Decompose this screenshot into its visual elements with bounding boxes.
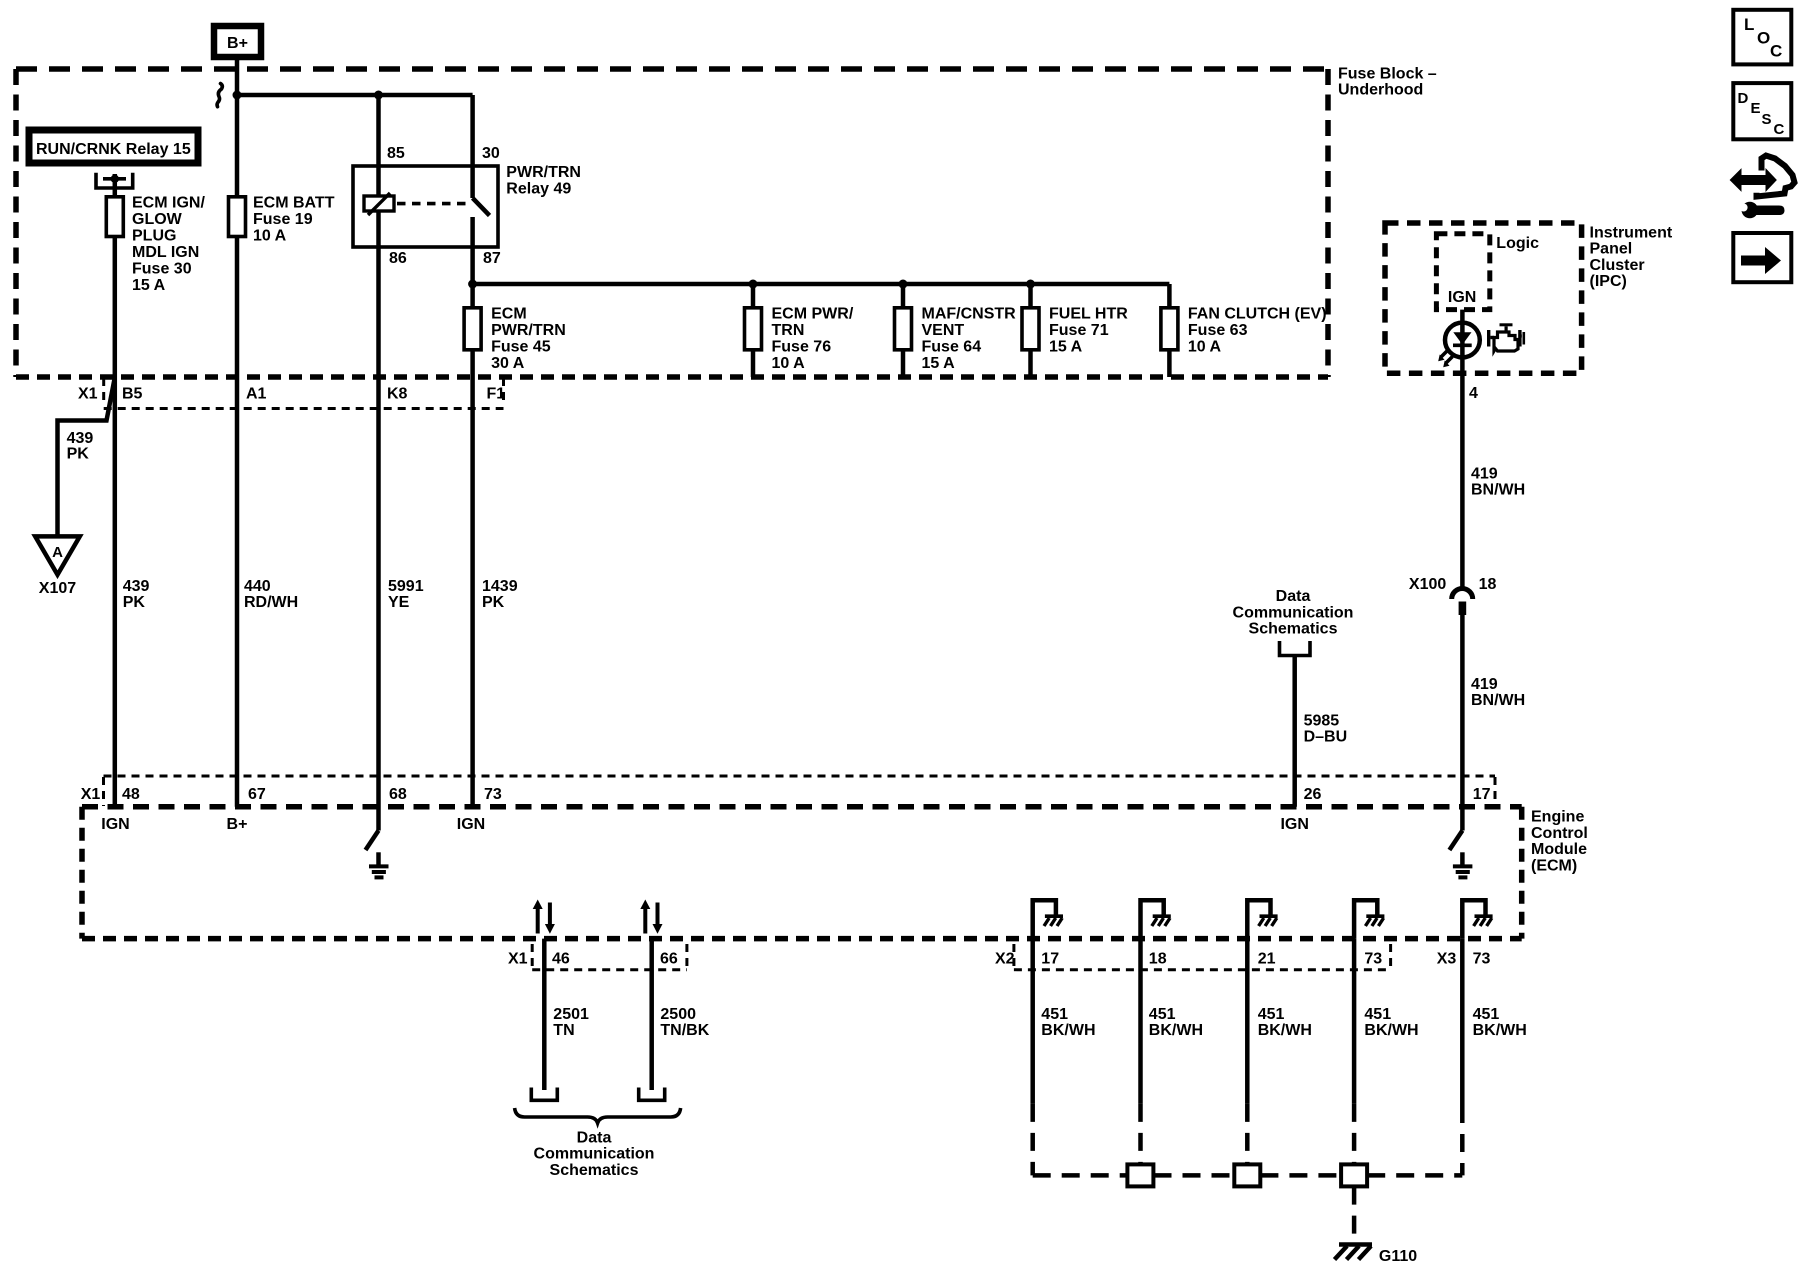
connector X100 pin 18 (1409, 576, 1497, 807)
icon forward arrow (1733, 233, 1791, 282)
off-page connector A / X107 (35, 536, 80, 597)
svg-text:ECM PWR/: ECM PWR/ (772, 306, 854, 323)
connector X1 fuse block output strip (78, 378, 505, 409)
svg-text:Schematics: Schematics (1249, 621, 1338, 638)
svg-text:419: 419 (1471, 676, 1498, 693)
wire 5991 YE K8 to ECM 68 (379, 377, 424, 831)
svg-text:451: 451 (1258, 1006, 1285, 1023)
power node B+ (214, 26, 261, 57)
svg-text:30: 30 (482, 145, 500, 162)
svg-text:X107: X107 (39, 580, 76, 597)
wire 2500 TN/BK (639, 939, 710, 1101)
svg-text:Data: Data (577, 1129, 612, 1146)
svg-text:D–BU: D–BU (1304, 729, 1348, 746)
svg-text:18: 18 (1149, 951, 1167, 968)
brace data communication schematics (515, 1108, 681, 1179)
svg-text:439: 439 (123, 578, 150, 595)
svg-text:ECM: ECM (491, 306, 527, 323)
svg-text:PWR/TRN: PWR/TRN (491, 322, 566, 339)
svg-text:2500: 2500 (660, 1006, 696, 1023)
svg-text:Communication: Communication (534, 1146, 655, 1163)
svg-text:YE: YE (388, 594, 410, 611)
fuse block underhood box (16, 66, 1437, 378)
relay terminal clip (96, 173, 133, 188)
svg-text:86: 86 (389, 250, 407, 267)
svg-text:Fuse 63: Fuse 63 (1188, 322, 1248, 339)
svg-text:10 A: 10 A (253, 228, 287, 245)
Engine Control Module (ECM) box (82, 807, 1588, 939)
svg-text:VENT: VENT (922, 322, 965, 339)
svg-text:73: 73 (1364, 951, 1382, 968)
wire 451 BK/WH pin 21 (1247, 939, 1312, 1164)
fuse F19 ECM BATT (229, 95, 335, 377)
svg-text:Control: Control (1531, 825, 1588, 842)
svg-text:ECM IGN/: ECM IGN/ (132, 195, 205, 212)
svg-text:G110: G110 (1379, 1248, 1417, 1265)
svg-text:15 A: 15 A (1049, 339, 1083, 356)
ground clip pin X2-73 (1354, 900, 1384, 938)
relay K49 PWR/TRN Relay 49 (353, 95, 581, 377)
svg-text:TN: TN (553, 1022, 574, 1039)
svg-text:S: S (1762, 111, 1772, 128)
svg-text:PK: PK (482, 594, 505, 611)
svg-text:73: 73 (1473, 951, 1491, 968)
svg-text:Data: Data (1276, 588, 1311, 605)
svg-text:26: 26 (1304, 786, 1322, 803)
svg-text:L: L (1744, 15, 1754, 34)
data link arrows pin 46 (533, 900, 555, 934)
svg-text:Fuse 71: Fuse 71 (1049, 322, 1109, 339)
splice box S1 (1127, 1164, 1153, 1186)
ground clip pin X2-17 (1033, 900, 1063, 938)
svg-text:BK/WH: BK/WH (1473, 1022, 1527, 1039)
svg-text:BN/WH: BN/WH (1471, 692, 1525, 709)
svg-text:BK/WH: BK/WH (1149, 1022, 1203, 1039)
svg-text:15 A: 15 A (922, 355, 956, 372)
svg-text:Relay 49: Relay 49 (506, 181, 571, 198)
svg-text:C: C (1774, 121, 1785, 138)
svg-text:Panel: Panel (1590, 241, 1633, 258)
svg-text:RUN/CRNK Relay 15: RUN/CRNK Relay 15 (36, 141, 191, 158)
wire 419 BN/WH lower (1471, 676, 1525, 709)
svg-text:5991: 5991 (388, 578, 424, 595)
svg-text:440: 440 (244, 578, 271, 595)
fuse F30 ECM IGN/GLOW PLUG MDL IGN (106, 174, 205, 377)
wire 451 BK/WH pin 18 (1141, 939, 1204, 1164)
svg-text:Cluster: Cluster (1590, 257, 1645, 274)
svg-text:FAN CLUTCH (EV): FAN CLUTCH (EV) (1188, 306, 1327, 323)
svg-text:Schematics: Schematics (550, 1162, 639, 1179)
svg-text:451: 451 (1149, 1006, 1176, 1023)
svg-text:F1: F1 (487, 386, 506, 403)
svg-text:B5: B5 (122, 386, 143, 403)
svg-text:C: C (1770, 42, 1782, 61)
svg-text:FUEL HTR: FUEL HTR (1049, 306, 1128, 323)
wire bus from relay pin 87 (468, 280, 1169, 289)
engine icon (check engine) (1487, 323, 1525, 351)
svg-text:5985: 5985 (1304, 713, 1340, 730)
fuse F45 ECM PWR/TRN (464, 284, 566, 377)
IPC pin 4 (1469, 385, 1478, 402)
wire 2501 TN (531, 939, 589, 1101)
svg-text:10 A: 10 A (772, 355, 806, 372)
wire 451 BK/WH pin 73 X3 (1462, 939, 1527, 1176)
svg-text:BK/WH: BK/WH (1258, 1022, 1312, 1039)
svg-text:30 A: 30 A (491, 355, 525, 372)
svg-text:439: 439 (67, 430, 94, 447)
svg-text:D: D (1738, 90, 1749, 107)
wire 1439 PK F1 to ECM 73 (473, 377, 518, 807)
ECM pin 17 switched ground (1449, 807, 1472, 878)
svg-text:IGN: IGN (457, 816, 485, 833)
svg-text:MDL IGN: MDL IGN (132, 244, 199, 261)
svg-text:PLUG: PLUG (132, 228, 176, 245)
svg-text:PK: PK (67, 446, 90, 463)
fuse F76 ECM PWR/TRN (745, 284, 854, 377)
svg-text:87: 87 (483, 250, 501, 267)
svg-text:73: 73 (484, 786, 502, 803)
svg-text:BK/WH: BK/WH (1041, 1022, 1095, 1039)
svg-text:68: 68 (389, 786, 407, 803)
svg-text:Communication: Communication (1233, 604, 1354, 621)
svg-text:451: 451 (1041, 1006, 1068, 1023)
svg-text:Fuse Block –: Fuse Block – (1338, 66, 1437, 83)
svg-text:IGN: IGN (1280, 816, 1308, 833)
ground clip pin X3-73 (1462, 900, 1492, 938)
svg-text:17: 17 (1473, 786, 1491, 803)
svg-text:2501: 2501 (553, 1006, 589, 1023)
svg-text:67: 67 (248, 786, 266, 803)
data link arrows pin 66 (640, 900, 662, 934)
ground clip pin X2-18 (1141, 900, 1171, 938)
svg-text:PWR/TRN: PWR/TRN (506, 164, 581, 181)
svg-text:48: 48 (122, 786, 140, 803)
connector strip ECM X1 bottom (508, 944, 687, 970)
svg-text:GLOW: GLOW (132, 211, 183, 228)
svg-text:PK: PK (123, 594, 146, 611)
svg-text:IGN: IGN (1448, 289, 1476, 306)
svg-text:10 A: 10 A (1188, 339, 1222, 356)
Instrument Panel Cluster (IPC) box (1385, 223, 1673, 373)
svg-text:17: 17 (1041, 951, 1059, 968)
fuse F64 MAF/CNSTR VENT (895, 284, 1017, 377)
svg-text:X1: X1 (78, 386, 98, 403)
svg-text:RD/WH: RD/WH (244, 594, 298, 611)
wire B+ into fuse block (235, 57, 240, 95)
fuse F63 FAN CLUTCH (EV) (1161, 284, 1327, 377)
icon LOC (1733, 10, 1791, 65)
wire 440 RD/WH A1 to ECM 67 (237, 377, 298, 807)
connector squiggle at B+ junction (217, 84, 222, 107)
fuse F71 FUEL HTR (1022, 284, 1128, 377)
svg-text:85: 85 (387, 145, 405, 162)
svg-text:A1: A1 (246, 386, 267, 403)
svg-text:X1: X1 (508, 951, 528, 968)
svg-text:X2: X2 (995, 951, 1015, 968)
data communication schematics callout (1233, 588, 1354, 807)
svg-text:21: 21 (1258, 951, 1276, 968)
ground clip pin X2-21 (1247, 900, 1277, 938)
svg-text:X3: X3 (1437, 951, 1457, 968)
connector strip ECM X1 top (81, 776, 1495, 806)
svg-text:(IPC): (IPC) (1590, 273, 1627, 290)
wire 439 PK branch to X107 (58, 379, 115, 536)
splice box S3 (1341, 1164, 1367, 1186)
svg-text:Fuse 64: Fuse 64 (922, 339, 982, 356)
svg-text:Underhood: Underhood (1338, 82, 1423, 99)
svg-text:TRN: TRN (772, 322, 805, 339)
svg-text:66: 66 (660, 951, 678, 968)
svg-text:Fuse 76: Fuse 76 (772, 339, 832, 356)
icon service arrows and wrench (1731, 156, 1795, 219)
svg-text:E: E (1751, 100, 1761, 117)
svg-text:Fuse 19: Fuse 19 (253, 211, 313, 228)
svg-text:1439: 1439 (482, 578, 518, 595)
svg-text:451: 451 (1473, 1006, 1500, 1023)
connector strip ECM X2/X3 bottom (995, 944, 1490, 970)
svg-text:X100: X100 (1409, 576, 1446, 593)
indicator LED (1438, 310, 1480, 588)
ECM pin 68 switched ground (366, 831, 389, 878)
svg-text:TN/BK: TN/BK (660, 1022, 709, 1039)
svg-text:Instrument: Instrument (1590, 224, 1673, 241)
svg-text:4: 4 (1469, 385, 1478, 402)
svg-text:Module: Module (1531, 841, 1587, 858)
wire 419 BN/WH upper (1471, 466, 1525, 499)
svg-text:Fuse 30: Fuse 30 (132, 261, 192, 278)
icon DESC (1733, 83, 1791, 139)
svg-text:K8: K8 (387, 386, 408, 403)
svg-text:O: O (1757, 29, 1770, 48)
svg-text:18: 18 (1479, 576, 1497, 593)
wire 451 BK/WH pin 73 X2 (1354, 939, 1419, 1164)
svg-text:Engine: Engine (1531, 809, 1584, 826)
svg-text:ECM BATT: ECM BATT (253, 195, 335, 212)
dashed ground bus (1033, 1173, 1463, 1178)
svg-text:IGN: IGN (101, 816, 129, 833)
svg-text:B+: B+ (227, 35, 248, 52)
svg-text:BN/WH: BN/WH (1471, 482, 1525, 499)
wire horizontal B+ feed to relay pins 85/30 (233, 91, 473, 100)
svg-text:X1: X1 (81, 786, 101, 803)
svg-text:451: 451 (1364, 1006, 1391, 1023)
svg-text:MAF/CNSTR: MAF/CNSTR (922, 306, 1017, 323)
ECM pin function labels (101, 816, 1309, 833)
svg-text:BK/WH: BK/WH (1364, 1022, 1418, 1039)
svg-text:B+: B+ (227, 816, 248, 833)
wire 439 PK B5 to ECM 48 (115, 377, 150, 807)
IPC Logic block (1436, 234, 1539, 310)
svg-text:(ECM): (ECM) (1531, 857, 1577, 874)
splice box S2 (1234, 1164, 1260, 1186)
svg-text:46: 46 (552, 951, 570, 968)
svg-text:A: A (52, 544, 63, 561)
svg-text:Fuse 45: Fuse 45 (491, 339, 551, 356)
svg-text:15 A: 15 A (132, 277, 166, 294)
RUN/CRNK Relay 15 label (29, 130, 198, 163)
ground G110 (1335, 1187, 1418, 1265)
svg-text:Logic: Logic (1496, 235, 1539, 252)
svg-text:419: 419 (1471, 466, 1498, 483)
wire 451 BK/WH pin 17 (1033, 939, 1096, 1176)
